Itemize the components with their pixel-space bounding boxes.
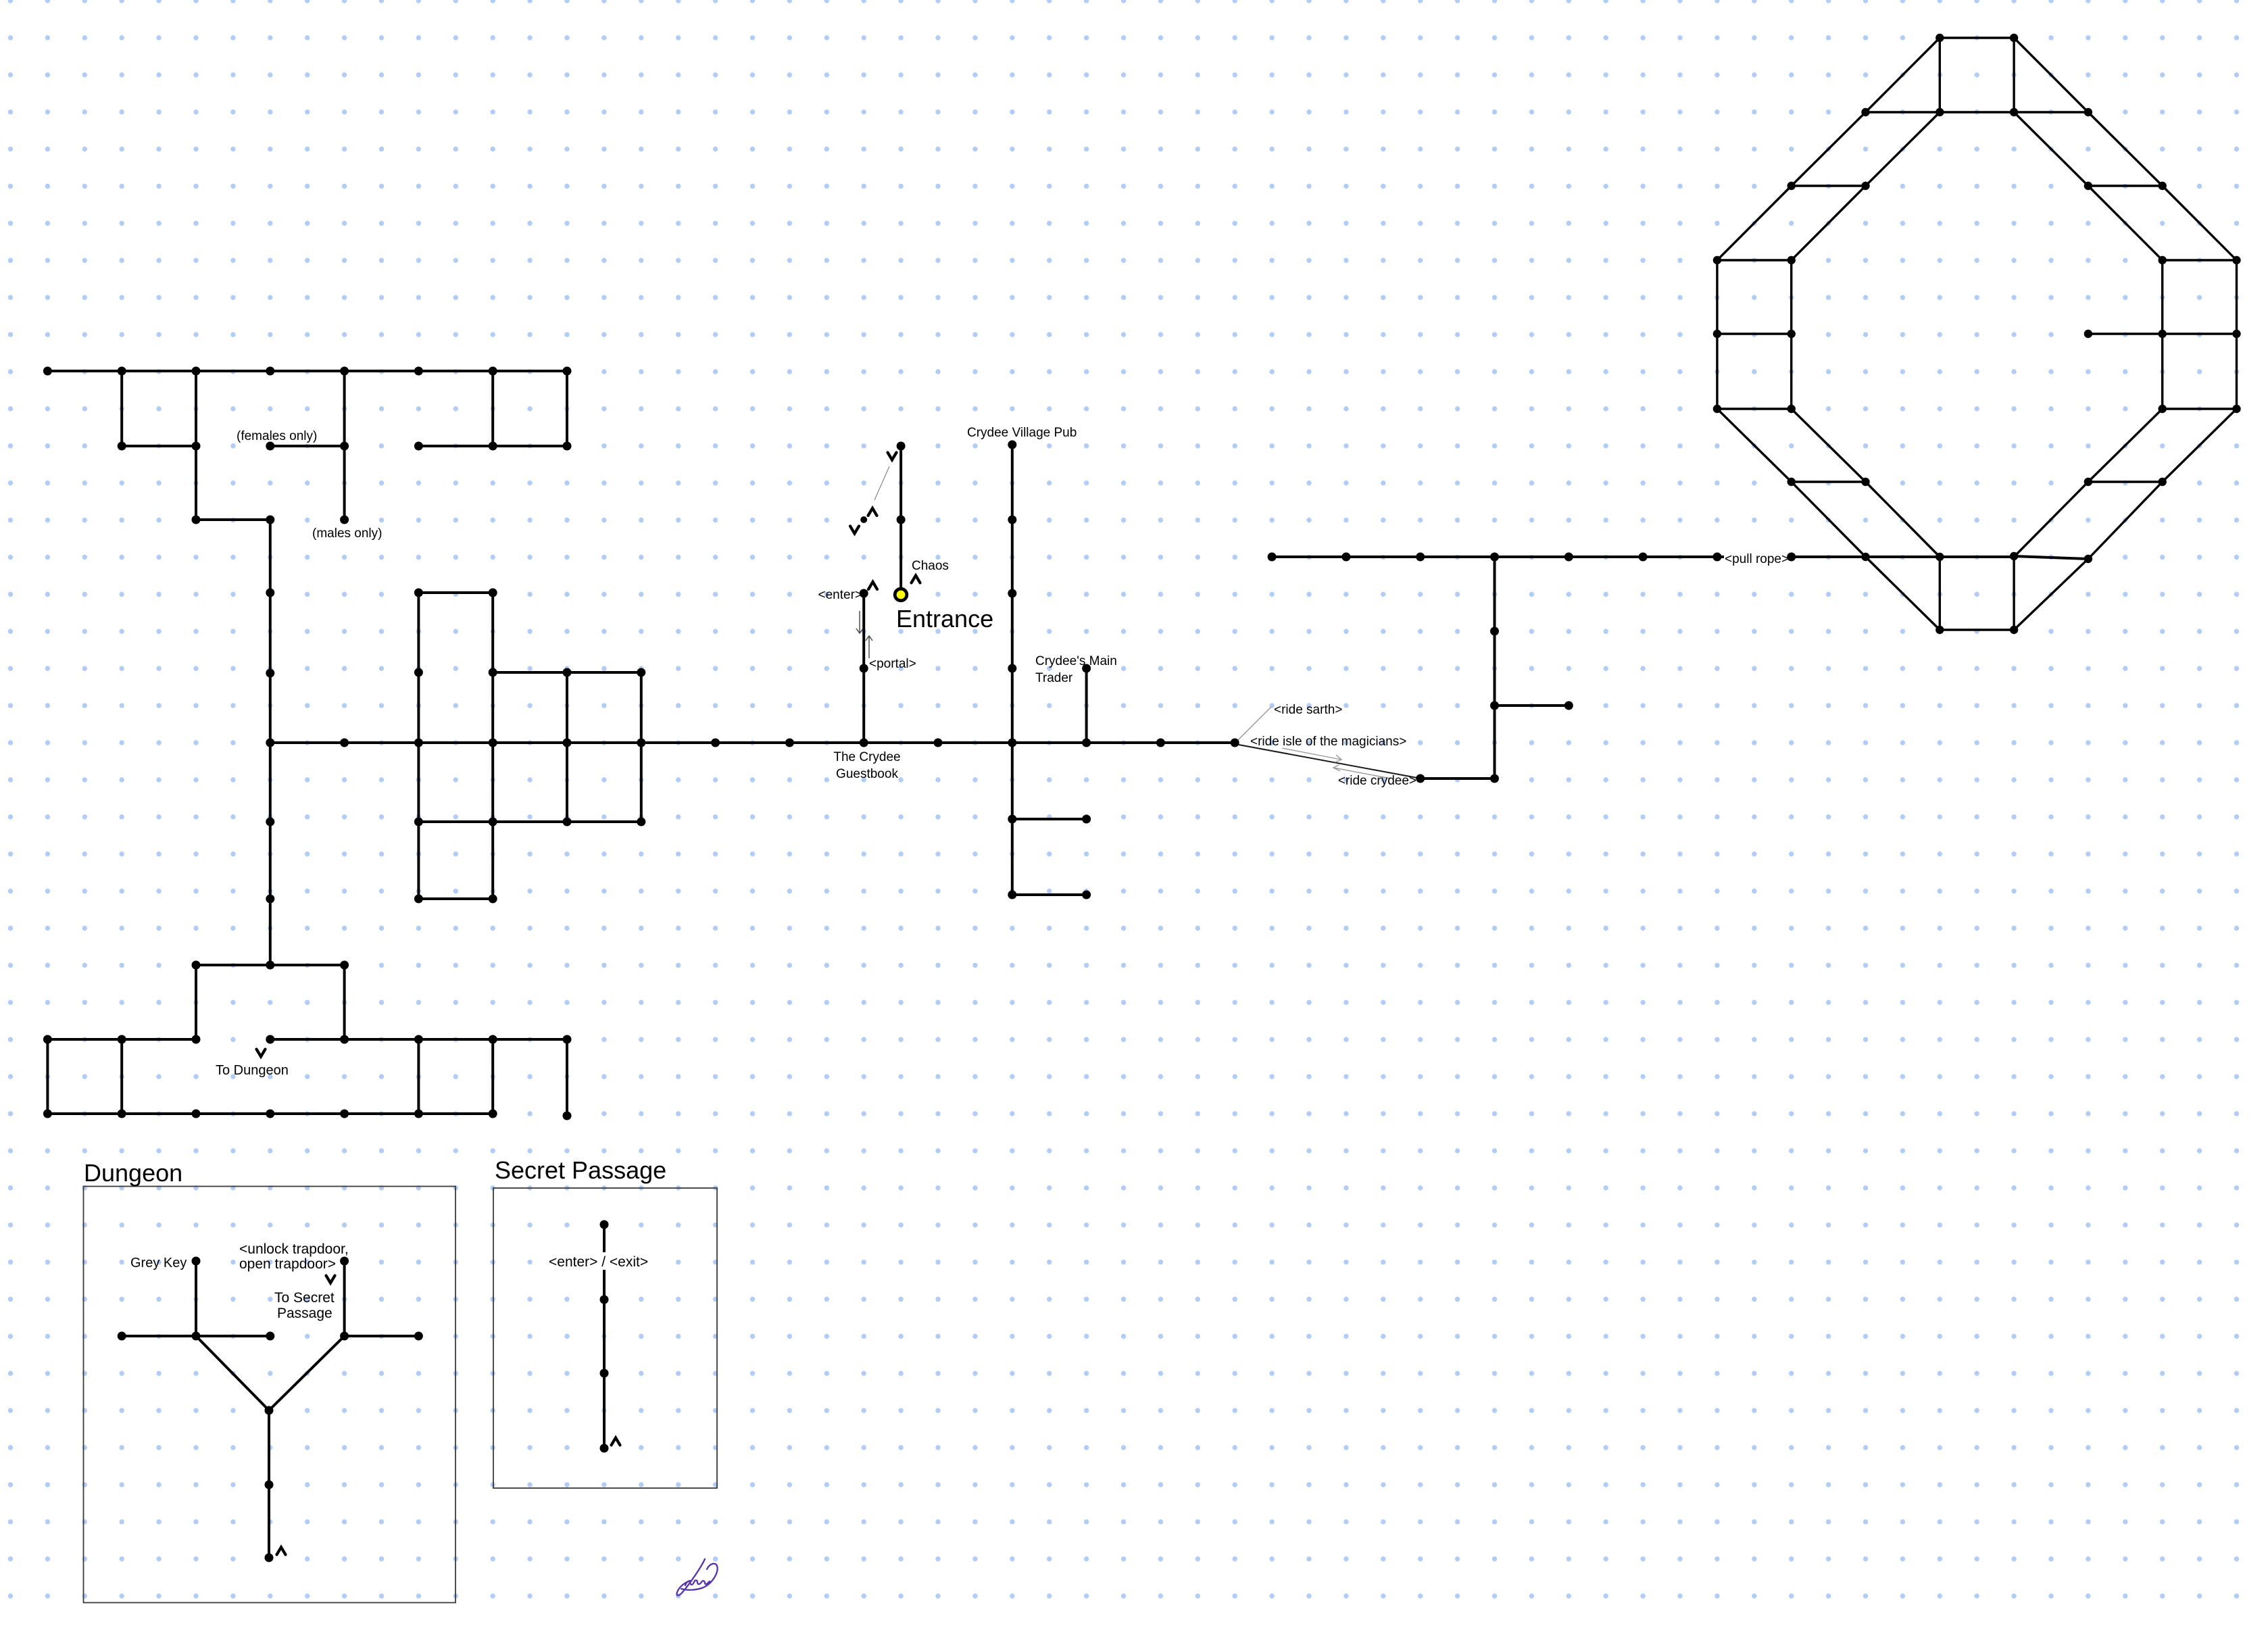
label bg: pull rope (1724, 549, 1788, 565)
wire: dormitory block NW corridor (195, 371, 197, 520)
node: castle block W room (414, 589, 423, 597)
node: village street room (1082, 815, 1091, 824)
wire: octagon ring corridor (1866, 557, 1940, 630)
glyph: v To Dungeon (257, 1049, 266, 1057)
node: keep block SW room (266, 1035, 274, 1044)
wire: octagon ring corridor (1792, 409, 1866, 482)
svg-text:To Dungeon: To Dungeon (216, 1063, 289, 1078)
signature (purple) (676, 1559, 717, 1596)
svg-text:<ride isle of the magicians>: <ride isle of the magicians> (1250, 735, 1406, 749)
pointer: ride sarth leader line (1238, 707, 1271, 740)
wire: castle block W corridor (640, 672, 643, 822)
node: east road room (1712, 553, 1721, 562)
wire: octagon ring corridor (1717, 259, 1792, 261)
node: octagon ring room (1788, 182, 1796, 190)
wire: octagon ring corridor (2088, 186, 2163, 260)
wire: dungeon corridor (343, 1261, 346, 1336)
wire: castle block W corridor (270, 741, 1235, 744)
node: octagon ring room (2010, 108, 2018, 116)
node: secret passage room (600, 1369, 609, 1378)
wire: keep block SW corridor (196, 964, 345, 966)
wire: octagon ring corridor (1790, 260, 1792, 409)
node: keep block SW room (118, 1110, 126, 1118)
node: castle block W room (489, 739, 497, 747)
wire: keep block SW corridor (46, 1039, 49, 1114)
node: octagon ring room (1861, 182, 1869, 190)
svg-text:Grey Key: Grey Key (130, 1256, 187, 1270)
node: octagon ring room (2084, 330, 2092, 338)
svg-text:Dungeon: Dungeon (84, 1159, 182, 1187)
node: entrance cluster room (860, 589, 868, 598)
svg-text:<pull rope>: <pull rope> (1725, 552, 1789, 566)
node: octagon ring room (2159, 405, 2167, 413)
node: dormitory block NW room (563, 367, 572, 376)
node: octagon ring room (2159, 182, 2167, 190)
svg-text:Crydee Village Pub: Crydee Village Pub (967, 426, 1077, 440)
wire: castle block W corridor (566, 672, 568, 822)
node: dormitory block NW room (340, 367, 349, 376)
node: dormitory block NW room (118, 442, 126, 451)
node: entrance cluster room (860, 664, 868, 673)
node: octagon ring room (2010, 626, 2018, 634)
node: dormitory block NW room (489, 367, 497, 376)
node: village street room (1008, 891, 1016, 899)
node: village street room (1008, 664, 1016, 673)
arrow: portal one-way up (866, 636, 872, 658)
node: castle block W room (489, 668, 497, 677)
wire: octagon ring corridor (2014, 559, 2088, 630)
wire: village street corridor (1085, 668, 1088, 743)
node: east road room (1564, 701, 1573, 710)
node: castle block W room (1082, 739, 1091, 747)
svg-text:<enter> / <exit>: <enter> / <exit> (549, 1254, 648, 1270)
node: dungeon room (265, 1481, 274, 1489)
wire: octagon ring corridor (2088, 332, 2237, 335)
node: octagon ring room (2232, 330, 2240, 338)
node: dungeon room (265, 1554, 274, 1562)
node: keep block SW room (563, 1035, 572, 1044)
wire: octagon ring corridor (1792, 186, 1866, 260)
node: octagon ring room (1713, 256, 1721, 264)
node: keep block SW room (489, 1110, 497, 1118)
node: octagon ring room (1713, 330, 1721, 338)
glyph: v (down) near top of entrance line (888, 453, 897, 460)
wire: castle block W corridor (418, 897, 493, 900)
wire: dungeon corridor (122, 1335, 270, 1337)
node: octagon ring room (1936, 626, 1944, 634)
svg-text:Entrance: Entrance (896, 605, 993, 633)
node: east road room (1490, 774, 1499, 783)
node: octagon ring room (1788, 478, 1796, 486)
box: Dungeon frame (84, 1187, 456, 1603)
node: octagon ring room (1936, 553, 1944, 561)
node: castle block W room (266, 589, 274, 597)
svg-text:Secret Passage: Secret Passage (495, 1156, 666, 1184)
node: octagon ring room (2159, 256, 2167, 264)
wire: octagon ring corridor (1940, 628, 2014, 631)
wire: castle block W corridor (269, 520, 272, 965)
wire: village street corridor (1011, 445, 1014, 895)
svg-text:(females only): (females only) (237, 429, 317, 443)
node: east road room (1341, 553, 1350, 562)
node: keep block SW room (43, 1035, 52, 1044)
wire: octagon ring corridor (2088, 184, 2163, 187)
node: east road room (1416, 774, 1425, 783)
wire: thin link to ride-crydee node (1239, 745, 1417, 778)
node: village street room (1008, 589, 1016, 598)
node: secret passage room (600, 1295, 609, 1304)
wire: octagon ring corridor (2014, 112, 2088, 186)
arrow: enter one-way down (856, 611, 863, 633)
wire: dormitory block NW corridor (47, 370, 567, 372)
label bg: enter/exit (547, 1252, 654, 1270)
svg-text:To Secret: To Secret (274, 1290, 335, 1306)
node: dormitory block NW room (340, 442, 349, 451)
wire: octagon ring corridor (1717, 409, 1792, 482)
node: east road room (1490, 701, 1499, 710)
wire: octagon ring corridor (2088, 409, 2163, 482)
wire: dormitory block NW corridor (491, 371, 494, 446)
node: dormitory block NW room (118, 367, 126, 376)
node: dungeon room (265, 1406, 274, 1415)
node: keep block SW room (414, 1035, 423, 1044)
wire: octagon ring corridor (2088, 482, 2163, 559)
node: keep block SW room (192, 1035, 201, 1044)
node: dormitory block NW room (563, 442, 572, 451)
wire: castle block W corridor (417, 593, 420, 899)
node: village street room (1008, 516, 1016, 524)
svg-text:The Crydee: The Crydee (833, 750, 900, 764)
node: keep block SW room (266, 1110, 274, 1118)
wire: octagon ring corridor (1717, 186, 1792, 260)
node: castle block W room (934, 739, 943, 747)
node: entrance cluster room (897, 516, 906, 524)
node: secret passage room (600, 1220, 609, 1229)
svg-text:open trapdoor>: open trapdoor> (239, 1256, 336, 1272)
wire: village street corridor (1012, 818, 1087, 820)
glyph: ^ secret passage bottom up-exit (612, 1438, 620, 1446)
node: octagon ring room (1713, 405, 1721, 413)
box: Secret Passage frame (493, 1188, 717, 1488)
node: keep block SW room (118, 1035, 126, 1044)
node: octagon ring room (2084, 182, 2092, 190)
node: secret passage room (600, 1444, 609, 1453)
node: castle block W room (637, 739, 645, 747)
glyph: ^ dungeon bottom up-exit (277, 1548, 286, 1555)
node: castle block W room (711, 739, 720, 747)
node: keep block SW room (43, 1110, 52, 1118)
wire: dormitory block NW corridor (343, 371, 346, 520)
arrow: ride isle of the magicians (rightward) (1282, 748, 1341, 762)
wire: castle block W corridor (491, 593, 494, 899)
wire: octagon ring corridor (1716, 260, 1718, 409)
node: dormitory block NW room (414, 442, 423, 451)
node: castle block W room (637, 818, 645, 826)
node: octagon ring room (2159, 478, 2167, 486)
wire: octagon ring corridor (2163, 407, 2237, 410)
node: octagon ring room (1861, 478, 1869, 486)
node: dungeon room (340, 1257, 349, 1266)
wire: octagon ring corridor (1866, 112, 1940, 186)
wire: entrance cluster corridor (862, 593, 865, 743)
node: village street room (1008, 441, 1016, 449)
wire: keep block SW corridor (195, 965, 197, 1039)
node: octagon ring room (1788, 256, 1796, 264)
node: octagon ring room (2232, 405, 2240, 413)
wire: octagon ring corridor (1792, 184, 1866, 187)
svg-text:<ride sarth>: <ride sarth> (1274, 703, 1342, 717)
node: keep block SW room (266, 961, 274, 970)
node: castle block W room (489, 818, 497, 826)
wire: octagon ring corridor (1939, 38, 1941, 112)
node: castle block W room (860, 739, 868, 747)
wire: east road corridor (1421, 777, 1495, 780)
wire: keep block SW corridor (417, 1039, 420, 1114)
glyph: v trapdoor down (326, 1276, 335, 1283)
node: dormitory block NW room (340, 516, 349, 524)
node: dormitory block NW room (414, 367, 423, 376)
glyph: ^ above floating node (868, 508, 877, 516)
node: keep block SW room (340, 1035, 349, 1044)
node: dormitory block NW room (266, 442, 274, 451)
node: castle block W room (563, 739, 572, 747)
wire: octagon ring corridor (2088, 480, 2163, 483)
node: east road room (1416, 553, 1425, 562)
wire: dormitory block NW corridor (418, 445, 567, 447)
node: dormitory block NW room (192, 367, 201, 376)
node: castle block W room (414, 895, 423, 904)
node: east road room (1490, 627, 1499, 636)
node: east road room (1787, 553, 1796, 562)
node: keep block SW room (340, 961, 349, 970)
pointer: thin line from v glyph to floating node (874, 466, 889, 500)
wire: east road corridor (1495, 704, 1569, 707)
wire: octagon ring corridor (2013, 38, 2015, 112)
glyph: ^ Chaos up-exit (912, 576, 920, 583)
wire: village street corridor (1012, 893, 1087, 896)
wire: octagon ring corridor (1792, 112, 1866, 186)
node: octagon ring room (2084, 478, 2092, 486)
svg-text:Chaos: Chaos (912, 559, 949, 573)
arrow: ride crydee (leftward) (1333, 765, 1391, 779)
node: castle block W room (489, 895, 497, 904)
wire: dormitory block NW corridor (122, 445, 196, 447)
node: dormitory block NW room (266, 367, 274, 376)
svg-text:Guestbook: Guestbook (836, 767, 898, 781)
wire: octagon ring corridor (2013, 557, 2015, 630)
node: octagon ring room (2232, 256, 2240, 264)
node: dormitory block NW room (192, 516, 201, 524)
node: keep block SW room (563, 1112, 572, 1120)
wire: octagon ring corridor (2088, 112, 2163, 186)
wire: octagon ring corridor (1717, 407, 1792, 410)
node: castle block W room (414, 668, 423, 677)
svg-text:(males only): (males only) (312, 526, 382, 541)
node: octagon ring room (2084, 555, 2092, 563)
node: east road room (1490, 553, 1499, 562)
svg-text:Crydee's Main: Crydee's Main (1035, 654, 1117, 668)
svg-text:<enter>: <enter> (818, 588, 863, 602)
node: east road room (1564, 553, 1573, 562)
wire: keep block SW corridor (566, 1039, 568, 1116)
wire: dungeon corridor (268, 1410, 270, 1558)
node: keep block SW room (414, 1110, 423, 1118)
node: keep block SW room (489, 1035, 497, 1044)
wire: octagon ring corridor (2163, 186, 2237, 260)
node: castle block W room (1008, 739, 1016, 747)
wire: octagon ring corridor (1866, 111, 2088, 113)
wire: octagon ring corridor (1866, 482, 1940, 557)
node: village street room (1082, 891, 1091, 899)
wire: octagon ring corridor (2236, 260, 2238, 409)
node: keep block SW room (192, 961, 201, 970)
node: dormitory block NW room (192, 442, 201, 451)
node: castle block W room (489, 589, 497, 597)
node: castle block W room (785, 739, 794, 747)
wire: secret passage corridor (603, 1225, 606, 1448)
wire: keep block SW corridor (343, 965, 346, 1039)
wire: castle block W corridor (418, 591, 493, 594)
node: octagon ring room (2159, 330, 2167, 338)
node: dungeon room (266, 1332, 274, 1341)
svg-text:Passage: Passage (277, 1306, 332, 1321)
node: castle block W room (340, 739, 349, 747)
wire: keep block SW corridor (270, 1038, 567, 1041)
node: octagon ring room (1861, 553, 1869, 561)
node: Entrance (yellow) (895, 589, 907, 601)
node: keep block SW room (340, 1110, 349, 1118)
wire: dungeon corridor (345, 1335, 419, 1337)
wire: octagon ring corridor (1717, 332, 1792, 335)
node: east road room (1268, 553, 1277, 562)
node: castle block W room (1231, 739, 1239, 747)
node: entrance cluster room (860, 516, 867, 523)
node: octagon ring room (1788, 330, 1796, 338)
node: castle block W room (1156, 739, 1165, 747)
svg-text:<portal>: <portal> (869, 657, 916, 671)
node: dungeon room (118, 1332, 126, 1341)
wire: octagon ring corridor (1939, 557, 1941, 630)
node: castle block W room (266, 739, 274, 747)
wire: dungeon corridor (269, 1336, 345, 1410)
wire: dormitory block NW corridor (120, 371, 123, 446)
wire: east road corridor (1272, 555, 2014, 558)
wire: keep block SW corridor (491, 1039, 494, 1114)
svg-text:Trader: Trader (1035, 671, 1073, 685)
node: octagon ring room (1861, 108, 1869, 116)
wire: dormitory block NW corridor (566, 371, 568, 446)
node: octagon ring room (1936, 34, 1944, 42)
node: dungeon room (192, 1332, 201, 1341)
wire: octagon ring corridor (1940, 36, 2014, 39)
wire: keep block SW corridor (47, 1112, 493, 1115)
node: dungeon room (192, 1257, 201, 1266)
wire: octagon ring corridor (2163, 409, 2237, 482)
wire: octagon ring corridor (1792, 480, 1866, 483)
wire: dormitory block NW corridor (270, 445, 345, 447)
node: octagon ring room (1936, 108, 1944, 116)
svg-text:<ride crydee>: <ride crydee> (1338, 774, 1416, 788)
wire: dungeon corridor (196, 1336, 269, 1410)
node: castle block W room (266, 669, 274, 678)
wire: dungeon corridor (195, 1261, 197, 1336)
wire: octagon ring corridor (2014, 38, 2088, 112)
node: octagon ring room (2010, 34, 2018, 42)
node: castle block W room (563, 818, 572, 826)
wire: octagon ring corridor (2163, 259, 2237, 261)
wire: octagon ring corridor (1792, 482, 1866, 557)
node: dungeon room (340, 1332, 349, 1341)
node: dormitory block NW room (489, 442, 497, 451)
wire: castle block W corridor (418, 820, 641, 823)
node: octagon ring room (2084, 108, 2092, 116)
wire: keep block SW corridor (120, 1039, 123, 1114)
node: dormitory block NW room (266, 516, 274, 524)
wire: entrance cluster corridor (899, 446, 902, 595)
node: castle block W room (414, 818, 423, 826)
node: castle block W room (563, 668, 572, 677)
node: octagon ring room (2010, 552, 2018, 560)
wire: castle block W corridor (493, 671, 641, 674)
node: castle block W room (266, 818, 274, 826)
node: castle block W room (414, 739, 423, 747)
wire: east road corridor (1494, 557, 1496, 779)
wire: octagon ring corridor (1866, 38, 1940, 112)
node: dormitory block NW room (43, 367, 52, 376)
wire: keep block SW corridor (47, 1038, 196, 1041)
glyph: v below floating node (850, 526, 859, 534)
wire: octagon ring corridor (2161, 260, 2163, 409)
wire: octagon ring corridor (2014, 482, 2088, 557)
node: village street room (1082, 664, 1091, 673)
node: east road room (1639, 553, 1648, 562)
node: keep block SW room (192, 1110, 201, 1118)
svg-text:<unlock trapdoor,: <unlock trapdoor, (239, 1241, 349, 1257)
node: castle block W room (266, 895, 274, 904)
wire: dormitory block NW corridor (196, 518, 270, 521)
node: entrance cluster room (897, 442, 906, 451)
node: dungeon room (414, 1332, 423, 1341)
glyph: ^ enter node up-exit (868, 582, 877, 589)
wire: east road corridor (2014, 556, 2088, 559)
node: octagon ring room (1788, 405, 1796, 413)
node: village street room (1008, 815, 1016, 824)
node: castle block W room (637, 668, 645, 677)
